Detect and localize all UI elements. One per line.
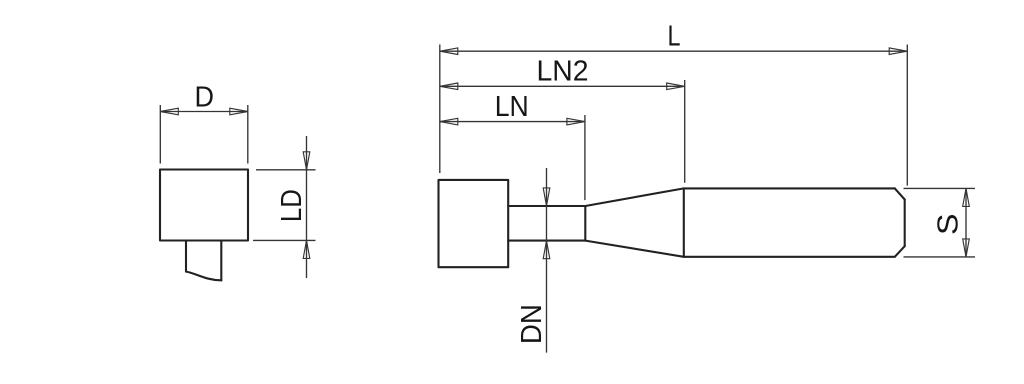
side view shank top line [684, 187, 895, 189]
side view neck bottom line [508, 240, 585, 242]
side view common left extension line [439, 45, 441, 174]
S dimension bottom arrowhead [963, 239, 970, 257]
D dimension left extension line [159, 105, 161, 164]
svg-text:LD: LD [276, 189, 308, 222]
LN dimension left arrowhead [440, 118, 458, 125]
side view neck top line [508, 205, 585, 207]
LN2 dimension line [440, 85, 685, 87]
D dimension right arrowhead [230, 108, 248, 115]
L dimension line [440, 50, 907, 52]
S dimension top arrowhead [963, 188, 970, 206]
LD dimension top arrowhead [303, 152, 310, 170]
L dimension left arrowhead [440, 48, 458, 55]
svg-text:LN: LN [495, 91, 529, 123]
LD dimension bottom arrowhead [303, 240, 310, 258]
svg-text:DN: DN [516, 304, 548, 344]
S dimension bottom extension line [904, 256, 976, 258]
D dimension right extension line [247, 105, 249, 164]
side view neck-taper junction line [584, 206, 586, 241]
side view taper top line [585, 188, 684, 206]
side view taper bottom line [585, 241, 684, 257]
left view shank break line [186, 272, 221, 281]
LN dimension right arrowhead [567, 118, 585, 125]
LD dimension top extension line [256, 169, 316, 171]
left view shank right edge [220, 241, 222, 281]
side view cutter head outline [439, 180, 509, 267]
side view shank top chamfer [895, 188, 905, 199]
DN dimension top arrowhead [543, 188, 550, 206]
LN dimension line [440, 121, 585, 123]
S dimension top extension line [904, 187, 976, 189]
L dimension right arrowhead [889, 48, 907, 55]
LN dimension right extension line [584, 115, 586, 200]
D dimension line [160, 111, 248, 113]
svg-text:S: S [933, 214, 965, 236]
D dimension left arrowhead [160, 108, 178, 115]
side view shank bottom line [684, 256, 895, 258]
DN dimension line [546, 168, 548, 353]
DN dimension bottom arrowhead [543, 241, 550, 259]
LD dimension bottom extension line [253, 239, 316, 241]
svg-text:LN2: LN2 [537, 56, 589, 88]
side view shank right end edge [904, 200, 906, 247]
svg-text:D: D [194, 81, 214, 113]
side view shank bottom chamfer [895, 246, 905, 257]
LD dimension line [306, 136, 308, 278]
LN2 dimension right extension line [684, 80, 686, 183]
left view shank left edge [185, 241, 187, 272]
S dimension line [965, 188, 967, 257]
svg-text:L: L [668, 21, 681, 53]
side view taper-shank junction line [683, 188, 685, 256]
LN2 dimension right arrowhead [667, 83, 685, 90]
LN2 dimension left arrowhead [440, 83, 458, 90]
L dimension right extension line [906, 45, 908, 186]
left view cutter head outline [160, 170, 248, 241]
